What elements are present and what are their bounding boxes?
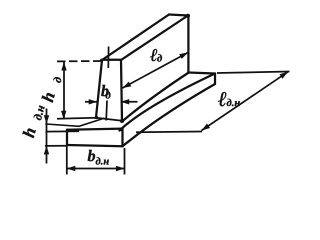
centerline stub above rib top xyxy=(107,47,109,69)
rib left end top edge xyxy=(101,59,121,61)
rib front top edge xyxy=(121,16,188,61)
dim h_d bottom arrowhead xyxy=(61,111,66,120)
dim l_dn upper arrowhead xyxy=(280,72,289,79)
dim b_dn dimension line xyxy=(67,168,125,170)
dim h_dn bottom tick xyxy=(45,145,67,147)
label b_dn xyxy=(88,150,109,165)
dim l_d right arrowhead xyxy=(179,53,188,59)
dim h_dn top tick xyxy=(46,130,80,132)
rib far top end edge xyxy=(169,15,188,16)
dim b_dn left extension line xyxy=(66,146,68,175)
plate left end left vertical edge xyxy=(66,130,68,145)
dim h_dn dimension line xyxy=(46,109,48,164)
plate left end right vertical edge xyxy=(121,129,123,147)
plate far end top edge xyxy=(188,73,215,74)
dim l_dn upper extension line xyxy=(217,72,290,74)
rib left end right vertical edge xyxy=(121,60,122,121)
plate left end bottom edge xyxy=(67,145,123,146)
dim l_d left arrowhead xyxy=(123,82,132,88)
dim l_d dimension line xyxy=(123,53,189,89)
dim h_d bottom extension line merging into rib base xyxy=(57,118,122,121)
dim l_dn dimension line xyxy=(202,72,289,131)
centerline stub on rib lower face xyxy=(105,101,108,121)
rib back top edge xyxy=(102,15,169,61)
ink blob at plate top right corner xyxy=(120,128,124,132)
dim l_dn lower extension line xyxy=(136,131,202,134)
label h_d xyxy=(41,75,62,104)
dim b_dn right arrowhead xyxy=(116,166,125,171)
dim h_d top extension line (dashed) xyxy=(57,60,101,62)
plate far end right vertical edge xyxy=(214,74,216,85)
label h_dn xyxy=(22,103,45,139)
plate top-left depth edge (visible segment) xyxy=(46,118,104,126)
plate top-right depth edge xyxy=(120,74,216,131)
rib bottom edge on plate top xyxy=(122,73,188,122)
ink blob at rib base left corner xyxy=(95,116,98,119)
dim h_d dimension line xyxy=(63,62,65,119)
dim h_d top arrowhead xyxy=(61,62,66,71)
ink blob at rib base right corner xyxy=(120,119,124,123)
rib right end vertical edge xyxy=(187,16,189,73)
dim b_d left line xyxy=(85,101,97,103)
label l_dn xyxy=(218,92,240,106)
plate left end top edge xyxy=(67,129,123,130)
dim b_d right arrowhead xyxy=(121,99,130,104)
dim b_d left arrowhead xyxy=(89,99,98,104)
dim h_dn lower arrowhead (up) xyxy=(44,146,49,155)
label b_d xyxy=(101,85,110,99)
dim l_dn lower arrowhead xyxy=(202,124,211,131)
rib left end left vertical edge xyxy=(96,60,102,118)
dim b_dn left arrowhead xyxy=(67,166,76,171)
dim h_dn upper arrowhead (down) xyxy=(44,115,49,124)
dim b_dn right extension line xyxy=(124,148,126,175)
plate bottom-right depth edge xyxy=(123,84,216,146)
ink blob at rib top right corner xyxy=(186,14,190,18)
dim b_d right line xyxy=(121,101,138,103)
label l_d xyxy=(150,49,162,62)
